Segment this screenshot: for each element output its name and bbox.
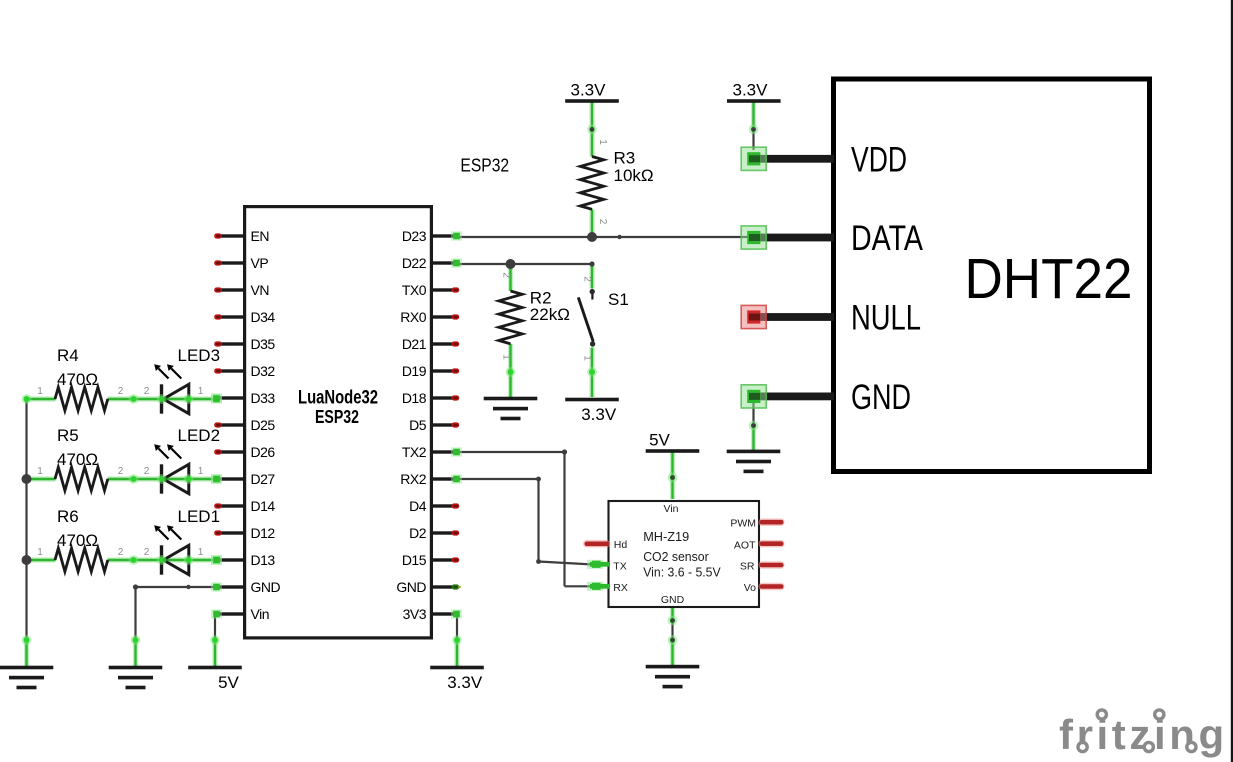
svg-text:D19: D19	[402, 363, 427, 379]
svg-text:RX0: RX0	[400, 309, 426, 325]
svg-text:2: 2	[597, 219, 608, 225]
svg-text:D25: D25	[251, 417, 276, 433]
svg-text:470Ω: 470Ω	[57, 450, 98, 469]
svg-text:Vin: 3.6 - 5.5V: Vin: 3.6 - 5.5V	[643, 564, 721, 579]
svg-text:VP: VP	[251, 255, 269, 271]
svg-text:1: 1	[198, 466, 204, 477]
svg-text:2: 2	[144, 386, 150, 397]
svg-text:D27: D27	[251, 471, 276, 487]
svg-text:D23: D23	[402, 228, 427, 244]
svg-text:LuaNode32: LuaNode32	[298, 388, 378, 409]
svg-text:SR: SR	[740, 560, 755, 572]
svg-text:R4: R4	[57, 346, 79, 365]
svg-text:DATA: DATA	[851, 219, 924, 258]
svg-text:NULL: NULL	[851, 299, 921, 338]
svg-text:R5: R5	[57, 426, 79, 445]
svg-text:1: 1	[198, 547, 204, 558]
svg-text:Vin: Vin	[251, 606, 269, 622]
svg-text:5V: 5V	[649, 431, 670, 450]
svg-text:D15: D15	[402, 552, 427, 568]
svg-text:D33: D33	[251, 390, 276, 406]
svg-text:5V: 5V	[218, 673, 239, 692]
svg-text:D34: D34	[251, 309, 276, 325]
svg-text:2: 2	[501, 272, 512, 278]
svg-text:470Ω: 470Ω	[57, 531, 98, 550]
svg-text:3.3V: 3.3V	[571, 81, 607, 100]
svg-text:ESP32: ESP32	[315, 407, 359, 427]
svg-text:1: 1	[597, 139, 608, 145]
svg-text:DHT22: DHT22	[965, 247, 1133, 310]
svg-text:470Ω: 470Ω	[57, 370, 98, 389]
svg-text:D22: D22	[402, 255, 427, 271]
svg-text:D12: D12	[251, 525, 276, 541]
svg-text:Vin: Vin	[664, 503, 679, 515]
svg-text:D4: D4	[409, 498, 427, 514]
svg-text:2: 2	[582, 276, 593, 282]
svg-text:1: 1	[37, 547, 43, 558]
svg-text:R3: R3	[614, 148, 636, 167]
svg-text:1: 1	[37, 386, 43, 397]
svg-text:GND: GND	[851, 378, 911, 417]
svg-text:22kΩ: 22kΩ	[530, 305, 570, 324]
svg-text:LED3: LED3	[178, 346, 221, 365]
svg-text:S1: S1	[608, 290, 629, 309]
svg-text:R6: R6	[57, 507, 79, 526]
svg-text:Vo: Vo	[744, 582, 756, 594]
svg-text:PWM: PWM	[730, 517, 756, 529]
svg-text:TX2: TX2	[402, 444, 427, 460]
svg-text:VDD: VDD	[851, 140, 907, 179]
svg-text:D18: D18	[402, 390, 427, 406]
svg-text:2: 2	[118, 466, 124, 477]
svg-text:VN: VN	[251, 282, 269, 298]
svg-text:D5: D5	[409, 417, 427, 433]
svg-text:MH-Z19: MH-Z19	[643, 529, 689, 544]
svg-text:RX2: RX2	[400, 471, 426, 487]
svg-text:LED2: LED2	[178, 426, 221, 445]
svg-text:D26: D26	[251, 444, 276, 460]
svg-text:D14: D14	[251, 498, 276, 514]
svg-text:D35: D35	[251, 336, 276, 352]
svg-text:GND: GND	[396, 579, 426, 595]
svg-text:3.3V: 3.3V	[447, 673, 483, 692]
svg-text:D2: D2	[409, 525, 427, 541]
svg-text:3V3: 3V3	[403, 606, 427, 622]
svg-text:2: 2	[144, 466, 150, 477]
svg-text:AOT: AOT	[734, 540, 756, 552]
svg-text:2: 2	[144, 547, 150, 558]
svg-text:TX: TX	[613, 561, 626, 573]
svg-text:GND: GND	[251, 579, 281, 595]
svg-text:D21: D21	[402, 336, 427, 352]
svg-text:LED1: LED1	[178, 507, 221, 526]
svg-text:10kΩ: 10kΩ	[614, 166, 654, 185]
svg-text:Hd: Hd	[614, 539, 628, 551]
svg-text:TX0: TX0	[402, 282, 427, 298]
svg-text:1: 1	[37, 466, 43, 477]
svg-text:D13: D13	[251, 552, 276, 568]
svg-text:EN: EN	[251, 228, 269, 244]
svg-text:1: 1	[582, 355, 593, 361]
svg-text:1: 1	[501, 354, 512, 360]
svg-text:3.3V: 3.3V	[581, 405, 617, 424]
svg-text:CO2 sensor: CO2 sensor	[643, 549, 709, 564]
svg-text:2: 2	[118, 386, 124, 397]
svg-text:GND: GND	[661, 594, 685, 606]
svg-text:2: 2	[118, 547, 124, 558]
svg-text:RX: RX	[613, 582, 628, 594]
svg-text:1: 1	[198, 386, 204, 397]
svg-text:D32: D32	[251, 363, 276, 379]
svg-text:3.3V: 3.3V	[733, 81, 769, 100]
svg-text:ESP32: ESP32	[460, 156, 509, 176]
